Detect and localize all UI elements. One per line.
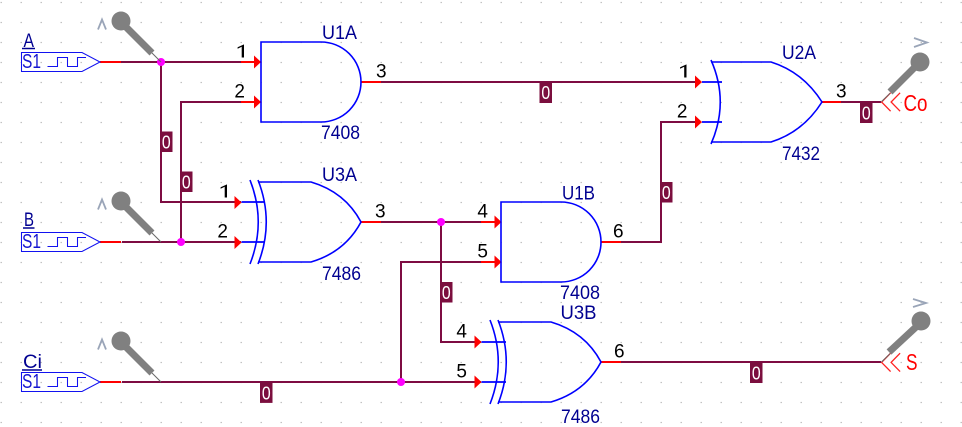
svg-text:0: 0 [752, 364, 761, 384]
svg-text:0: 0 [662, 183, 671, 203]
svg-text:S1: S1 [22, 231, 41, 253]
svg-text:2: 2 [217, 222, 228, 243]
svg-text:U1B: U1B [562, 184, 595, 205]
svg-text:0: 0 [262, 383, 271, 403]
svg-text:U2A: U2A [782, 43, 816, 64]
svg-text:S1: S1 [22, 371, 41, 393]
svg-text:6: 6 [613, 222, 624, 243]
svg-text:3: 3 [375, 202, 386, 223]
svg-text:7432: 7432 [782, 144, 820, 165]
svg-text:7408: 7408 [560, 283, 600, 304]
svg-text:5: 5 [477, 242, 488, 263]
svg-text:7486: 7486 [322, 264, 361, 285]
svg-text:S1: S1 [22, 51, 41, 73]
svg-text:3: 3 [836, 82, 847, 103]
svg-text:0: 0 [862, 104, 871, 124]
svg-text:4: 4 [477, 202, 488, 223]
svg-text:4: 4 [456, 322, 467, 343]
svg-text:2: 2 [677, 102, 688, 123]
svg-text:3: 3 [376, 62, 387, 83]
svg-text:0: 0 [182, 173, 191, 193]
svg-text:5: 5 [456, 362, 467, 383]
svg-text:S: S [906, 349, 918, 375]
svg-text:U3B: U3B [561, 303, 597, 324]
svg-text:0: 0 [442, 283, 451, 303]
svg-text:0: 0 [541, 83, 550, 103]
svg-text:0: 0 [162, 133, 171, 153]
svg-text:2: 2 [234, 82, 245, 103]
svg-text:7486: 7486 [561, 407, 600, 427]
svg-text:6: 6 [614, 342, 625, 363]
svg-text:U3A: U3A [322, 165, 357, 186]
svg-text:Co: Co [904, 90, 928, 116]
svg-text:7408: 7408 [321, 123, 360, 144]
svg-text:U1A: U1A [322, 23, 357, 44]
